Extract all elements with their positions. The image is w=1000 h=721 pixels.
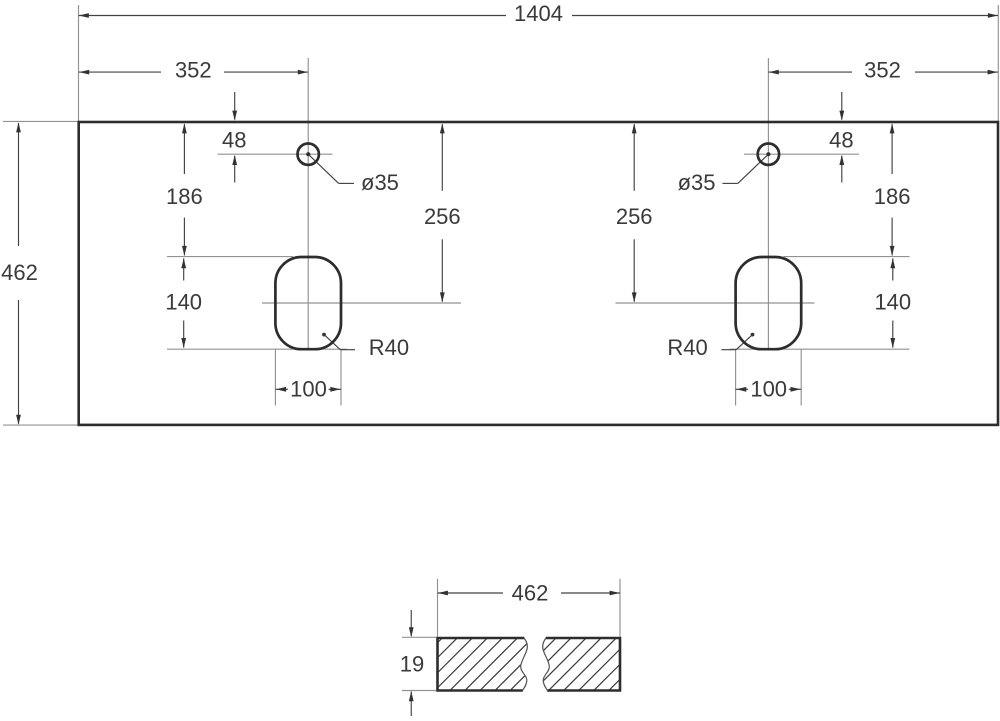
svg-text:352: 352 [175, 57, 212, 82]
svg-text:352: 352 [864, 57, 901, 82]
svg-text:48: 48 [222, 128, 246, 153]
svg-text:140: 140 [874, 290, 911, 315]
svg-text:100: 100 [290, 377, 327, 402]
svg-text:186: 186 [166, 184, 203, 209]
svg-text:ø35: ø35 [678, 170, 716, 195]
svg-text:48: 48 [829, 128, 853, 153]
svg-text:256: 256 [616, 204, 653, 229]
svg-text:186: 186 [874, 184, 911, 209]
svg-text:R40: R40 [369, 335, 409, 360]
svg-text:R40: R40 [667, 335, 707, 360]
svg-text:1404: 1404 [514, 1, 563, 26]
svg-text:256: 256 [424, 204, 461, 229]
svg-text:140: 140 [165, 290, 202, 315]
svg-text:19: 19 [400, 651, 424, 676]
svg-text:100: 100 [750, 377, 787, 402]
svg-text:462: 462 [1, 260, 38, 285]
svg-text:462: 462 [512, 580, 549, 605]
svg-text:ø35: ø35 [361, 170, 399, 195]
